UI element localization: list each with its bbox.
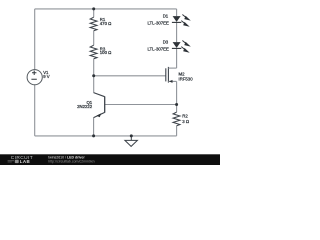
svg-text:IRF530: IRF530 [179, 76, 194, 81]
mosfet M2 gate bar [165, 68, 167, 81]
resistor R1 [90, 17, 97, 31]
wire right column to D1 anode [176, 9, 178, 16]
wire R3 to node G [93, 59, 95, 76]
transistor Q1 base bar [104, 96, 106, 112]
LED D1 [173, 16, 181, 22]
svg-text:2N2222: 2N2222 [77, 104, 93, 109]
svg-text:LAB: LAB [20, 159, 31, 164]
resistor R3 [90, 45, 97, 59]
node dot ground [130, 134, 133, 137]
footer text [48, 156, 94, 164]
LED D3 [173, 42, 181, 48]
wire R1 to R3 [93, 31, 95, 46]
svg-text:LTL-307EE: LTL-307EE [147, 46, 169, 51]
mosfet M2 drain stub [168, 67, 176, 69]
footer bar [0, 154, 220, 165]
svg-text:3 Ω: 3 Ω [182, 119, 190, 124]
wire node G to Q1 collector [93, 76, 95, 93]
transistor Q1 emitter arrow [96, 113, 101, 117]
svg-text:9 V: 9 V [43, 74, 50, 79]
voltage source V1 [27, 70, 42, 85]
wire D1 cathode to D3 anode [176, 22, 178, 42]
wire node S to R2 [176, 105, 178, 113]
svg-text:httр://circuitlab.com/c2mm9xn: httр://circuitlab.com/c2mm9xn [48, 160, 94, 164]
svg-text:D1: D1 [163, 14, 169, 19]
wire left rail upper [34, 9, 36, 70]
node dot top rail [92, 7, 95, 10]
logo CircuitLab [8, 155, 33, 164]
wire top rail [35, 8, 177, 10]
mosfet M2 source stub [168, 80, 176, 82]
svg-text:LTL-307EE: LTL-307EE [147, 20, 169, 25]
svg-text:R2: R2 [182, 114, 188, 119]
node S dot [175, 103, 178, 106]
svg-text:100 Ω: 100 Ω [100, 50, 112, 55]
node dot emitter/bottom rail [92, 134, 95, 137]
wire bottom rail [35, 135, 177, 137]
wire Q1 base to node S [105, 104, 177, 106]
wire R2 to bottom rail [176, 126, 178, 136]
resistor R2 [173, 112, 180, 126]
svg-text:D3: D3 [163, 40, 169, 45]
labels [43, 14, 193, 124]
wire gate rail from node G to M2 gate [94, 75, 166, 77]
wire R1 top lead [93, 9, 95, 17]
mosfet M2 channel bar [167, 67, 169, 83]
wire D3 cathode to M2 drain [176, 48, 178, 68]
ground stem [130, 136, 132, 141]
transistor Q1 collector diagonal [94, 93, 105, 97]
wire Q1 emitter to bottom rail [93, 118, 95, 136]
mosfet M2 source arrow [169, 80, 173, 83]
svg-text:470 Ω: 470 Ω [100, 21, 112, 26]
node G dot [92, 74, 95, 77]
ground triangle [125, 140, 137, 146]
transistor Q1 emitter diagonal [94, 112, 105, 117]
wire M2 source to node S [176, 81, 178, 104]
wire left rail lower [34, 85, 36, 136]
